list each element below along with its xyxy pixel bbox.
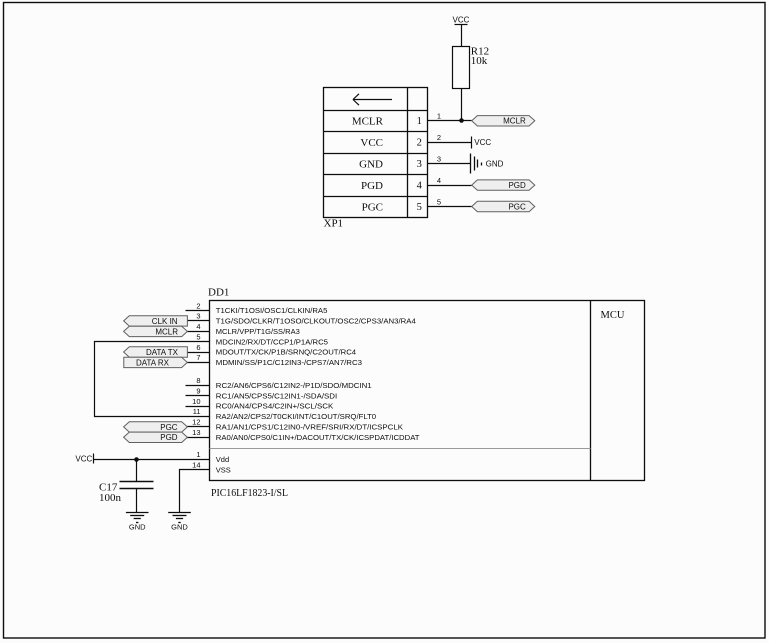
wire XP1 pin 1 — [428, 120, 472, 122]
resistor R12 — [453, 47, 470, 89]
svg-text:DATA TX: DATA TX — [146, 348, 179, 357]
net tag MCLR (DD1) — [124, 326, 188, 336]
svg-text:1: 1 — [196, 450, 200, 459]
svg-text:13: 13 — [192, 428, 200, 437]
ground (VSS) — [168, 513, 191, 523]
net tag MCLR — [472, 116, 535, 126]
svg-text:4: 4 — [196, 322, 200, 331]
svg-text:RC2/AN6/CPS6/C12IN2-/P1D/SDO/M: RC2/AN6/CPS6/C12IN2-/P1D/SDO/MDCIN1 — [216, 381, 372, 390]
junction node Vdd/C17 — [134, 457, 139, 462]
svg-text:4: 4 — [417, 181, 423, 192]
wire pin5 to pin11 bracket — [95, 342, 211, 417]
svg-text:DATA RX: DATA RX — [136, 358, 170, 367]
net tag PGC — [472, 201, 535, 211]
svg-text:11: 11 — [193, 407, 201, 416]
junction node MCLR — [459, 118, 464, 123]
svg-text:GND: GND — [486, 160, 504, 169]
svg-text:100n: 100n — [99, 492, 122, 504]
wire XP1 pin 5 — [428, 206, 472, 208]
wire XP1 pin 3 — [428, 163, 471, 165]
power flag VCC (pin 2) — [471, 137, 473, 149]
svg-text:PIC16LF1823-I/SL: PIC16LF1823-I/SL — [211, 487, 288, 499]
svg-text:DD1: DD1 — [208, 287, 229, 299]
wire DD1 pin 6 — [186, 352, 210, 354]
svg-text:10k: 10k — [471, 55, 488, 67]
svg-text:MCLR: MCLR — [155, 327, 178, 336]
svg-text:RA2/AN2/CPS2/T0CKI/INT/C1OUT/S: RA2/AN2/CPS2/T0CKI/INT/C1OUT/SRQ/FLT0 — [216, 412, 376, 421]
wire DD1 pin 10 — [186, 406, 210, 408]
svg-text:7: 7 — [196, 353, 200, 362]
svg-text:MDCIN2/RX/DT/CCP1/P1A/RC5: MDCIN2/RX/DT/CCP1/P1A/RC5 — [216, 337, 328, 346]
connector arrow symbol — [353, 94, 392, 105]
wire pin 14 VSS to ground — [180, 470, 211, 513]
ground symbol (pin 3, rotated) — [470, 154, 472, 174]
wire R12 to node MCLR — [461, 89, 463, 121]
svg-text:14: 14 — [192, 460, 200, 469]
net tag CLK IN — [124, 316, 188, 326]
wire DD1 pin 12 — [186, 426, 210, 428]
wire junction to C17 — [136, 460, 138, 482]
svg-text:3: 3 — [417, 159, 422, 170]
wire XP1 pin 4 — [428, 185, 472, 187]
net tag PGD — [472, 180, 535, 190]
svg-text:MCLR: MCLR — [352, 116, 384, 128]
wire VCC to R12 — [461, 25, 463, 47]
svg-text:2: 2 — [196, 301, 200, 310]
svg-text:GND: GND — [359, 159, 383, 171]
svg-text:RC1/AN5/CPS5/C12IN1-/SDA/SDI: RC1/AN5/CPS5/C12IN1-/SDA/SDI — [216, 391, 337, 400]
wire DD1 pin 3 — [186, 320, 210, 322]
wire XP1 pin 2 — [428, 142, 472, 144]
connector XP1 body — [324, 88, 428, 218]
svg-text:PGD: PGD — [508, 181, 526, 190]
svg-text:MDMIN/SS/P1C/C12IN3-/CPS7/AN7/: MDMIN/SS/P1C/C12IN3-/CPS7/AN7/RC3 — [216, 358, 362, 367]
svg-text:12: 12 — [192, 418, 200, 427]
wire C17 to ground — [136, 489, 138, 513]
net tag DATA RX — [124, 357, 188, 367]
svg-text:RC0/AN4/CPS4/C2IN+/SCL/SCK: RC0/AN4/CPS4/C2IN+/SCL/SCK — [216, 402, 333, 411]
svg-text:Vdd: Vdd — [216, 455, 229, 464]
svg-text:RA0/AN0/CPS0/C1IN+/DACOUT/TX/C: RA0/AN0/CPS0/C1IN+/DACOUT/TX/CK/ICSPDAT/… — [216, 433, 420, 442]
svg-text:10: 10 — [192, 397, 200, 406]
svg-text:VCC: VCC — [453, 15, 470, 24]
svg-text:VCC: VCC — [474, 138, 491, 147]
svg-text:MDOUT/TX/CK/P1B/SRNQ/C2OUT/RC4: MDOUT/TX/CK/P1B/SRNQ/C2OUT/RC4 — [216, 348, 356, 357]
svg-text:9: 9 — [196, 387, 200, 396]
svg-text:MCU: MCU — [601, 310, 625, 321]
svg-text:GND: GND — [171, 523, 188, 532]
svg-text:PGC: PGC — [508, 202, 526, 211]
capacitor C17 — [120, 481, 154, 483]
svg-text:CLK IN: CLK IN — [152, 317, 178, 326]
net tag DATA TX — [124, 347, 188, 357]
svg-text:MCLR/VPP/T1G/SS/RA3: MCLR/VPP/T1G/SS/RA3 — [216, 327, 300, 336]
svg-text:PGD: PGD — [160, 433, 178, 442]
svg-text:6: 6 — [196, 343, 200, 352]
wire DD1 pin 4 — [186, 331, 210, 333]
ground (C17) — [126, 513, 149, 523]
svg-text:T1G/SDO/CLKR/T1OSO/CLKOUT/OSC2: T1G/SDO/CLKR/T1OSO/CLKOUT/OSC2/CPS3/AN3/… — [216, 317, 416, 326]
svg-text:PGD: PGD — [361, 180, 383, 192]
svg-text:VCC: VCC — [360, 137, 383, 149]
svg-text:VCC: VCC — [75, 455, 92, 464]
svg-text:5: 5 — [196, 333, 200, 342]
svg-text:3: 3 — [196, 312, 200, 321]
MCU internal divider — [210, 448, 591, 450]
svg-text:8: 8 — [196, 376, 200, 385]
svg-text:XP1: XP1 — [324, 218, 344, 230]
svg-text:2: 2 — [417, 138, 422, 149]
net tag PGC (DD1) — [124, 422, 188, 432]
svg-text:T1CKI/T1OSI/OSC1/CLKIN/RA5: T1CKI/T1OSI/OSC1/CLKIN/RA5 — [216, 306, 328, 315]
wire DD1 pin 9 — [186, 395, 210, 397]
svg-text:3: 3 — [437, 155, 441, 164]
svg-text:PGC: PGC — [362, 201, 383, 213]
svg-text:1: 1 — [417, 116, 422, 127]
svg-text:4: 4 — [437, 176, 441, 185]
wire DD1 pin 8 — [186, 385, 210, 387]
svg-text:5: 5 — [437, 197, 441, 206]
svg-text:GND: GND — [129, 523, 146, 532]
wire VCC to pin 1 Vdd — [94, 459, 210, 461]
svg-text:PGC: PGC — [160, 423, 178, 432]
svg-text:RA1/AN1/CPS1/C12IN0-/VREF/SRI/: RA1/AN1/CPS1/C12IN0-/VREF/SRI/RX/DT/ICSP… — [216, 423, 403, 432]
wire DD1 pin 7 — [186, 362, 210, 364]
wire DD1 pin 2 — [186, 310, 210, 312]
svg-text:2: 2 — [437, 133, 441, 142]
svg-text:VSS: VSS — [216, 465, 231, 474]
svg-text:1: 1 — [437, 112, 441, 121]
svg-text:5: 5 — [417, 202, 422, 213]
net tag PGD (DD1) — [124, 432, 188, 442]
MCU U-DD1 body — [210, 301, 645, 481]
wire DD1 pin 13 — [186, 437, 210, 439]
svg-text:MCLR: MCLR — [503, 117, 526, 126]
